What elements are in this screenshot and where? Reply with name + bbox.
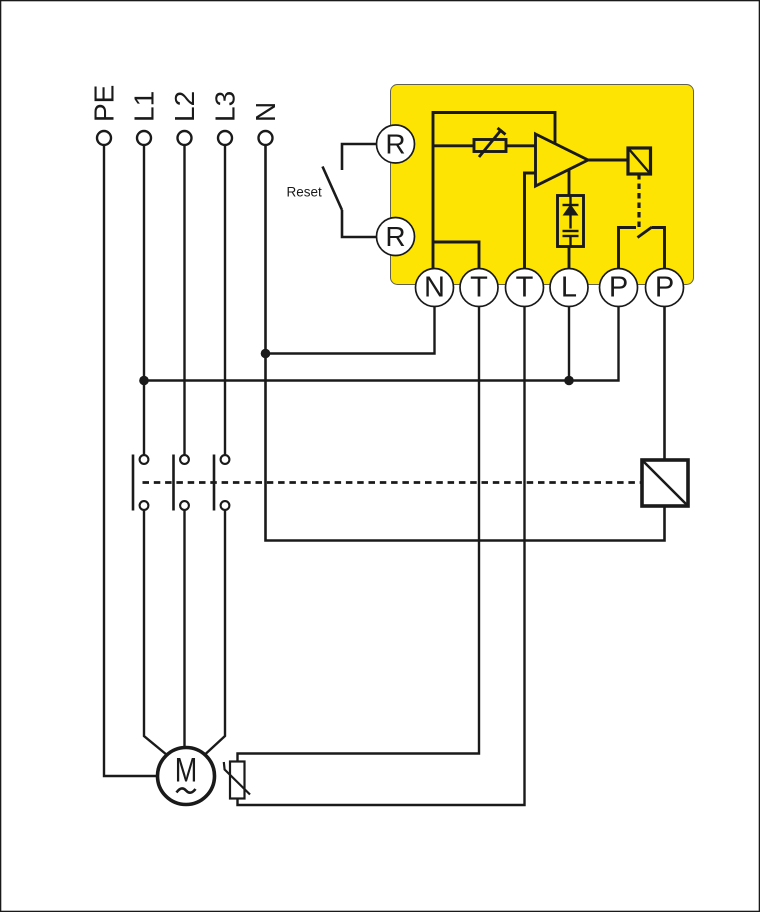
- wire actuation link contactor (dashed): [143, 481, 643, 484]
- terminal P1 (relay): [600, 269, 638, 307]
- wire actuation link (dashed): [637, 174, 640, 230]
- svg-text:L3: L3: [210, 91, 241, 122]
- svg-text:L1: L1: [129, 91, 160, 122]
- svg-text:L: L: [561, 272, 577, 304]
- wire L2 upper: [183, 145, 185, 456]
- wire T2 to thermistor: [238, 307, 525, 806]
- svg-text:T: T: [470, 272, 488, 304]
- svg-text:R: R: [385, 129, 405, 160]
- terminal N (relay): [416, 269, 454, 307]
- terminal T1 (relay): [460, 269, 498, 307]
- node N junction: [261, 349, 271, 359]
- svg-text:N: N: [424, 272, 445, 304]
- wire relay L to junction: [568, 307, 570, 381]
- wire measuring bridge to comparator input: [433, 144, 536, 147]
- relay coil K1 (internal): [628, 148, 651, 174]
- terminal L2: [169, 91, 200, 145]
- terminal PE: [89, 85, 120, 145]
- diode D1 indicator box: [558, 196, 584, 247]
- wire L3 upper: [224, 145, 226, 456]
- terminal L3: [210, 91, 241, 145]
- terminal N: [250, 102, 281, 145]
- op-amp U1 (comparator): [536, 134, 589, 186]
- wire PE: [104, 145, 156, 776]
- coil K1 (contactor coil): [642, 460, 688, 506]
- reset switch S1: [287, 144, 377, 237]
- contactor Q1 pole 3: [214, 455, 229, 511]
- wire L3 lower to motor: [206, 510, 226, 755]
- wire internal left loop: [433, 113, 555, 269]
- wire L1 lower to motor: [144, 510, 167, 756]
- terminal R2: [377, 218, 415, 256]
- wire T1 to thermistor: [238, 307, 480, 763]
- wire T2 to comparator: [525, 173, 536, 269]
- svg-text:N: N: [250, 102, 281, 122]
- contact K1 (internal relay contact): [619, 227, 665, 269]
- svg-text:R: R: [385, 221, 405, 252]
- terminal R1: [377, 125, 415, 163]
- node L1 junction: [139, 376, 149, 386]
- svg-text:PE: PE: [89, 85, 120, 122]
- thermistor RT1 (motor sensor): [224, 762, 250, 799]
- svg-text:P: P: [609, 272, 628, 304]
- contactor Q1 pole 1: [133, 455, 148, 511]
- wire comparator to LED box: [568, 170, 571, 196]
- wire N vertical: [266, 145, 665, 541]
- terminal P2 (relay): [646, 269, 684, 307]
- svg-text:Reset: Reset: [287, 185, 323, 200]
- motor M1: [158, 748, 215, 805]
- terminal L1: [129, 91, 160, 145]
- wire N to relay terminal N: [266, 307, 435, 354]
- wire L1 junction to relay P: [144, 307, 619, 381]
- wire L2 lower to motor: [183, 510, 185, 749]
- wire P2 to coil: [663, 307, 666, 461]
- wire L1 upper: [143, 145, 145, 456]
- terminal T2 (relay): [506, 269, 544, 307]
- wire LED box to L: [568, 247, 571, 269]
- svg-text:M: M: [175, 752, 198, 790]
- svg-text:L2: L2: [169, 91, 200, 122]
- node L junction: [564, 376, 574, 386]
- wire comparator output: [588, 159, 628, 162]
- terminal L (relay): [550, 269, 588, 307]
- relay unit body (yellow): [391, 85, 694, 285]
- svg-text:T: T: [516, 272, 534, 304]
- resistor RT (threshold preset): [474, 128, 506, 157]
- contactor Q1 pole 2: [174, 455, 189, 511]
- svg-text:P: P: [655, 272, 674, 304]
- wire internal branch to T: [433, 242, 479, 269]
